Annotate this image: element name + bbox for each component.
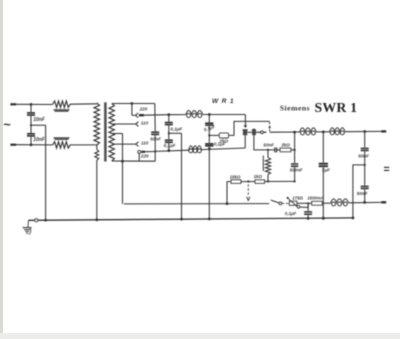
wire (16, 144, 53, 146)
rectifier cell 2 (252, 129, 256, 135)
label C13 value (285, 211, 297, 216)
wire (265, 180, 295, 182)
wire (202, 148, 246, 150)
contact circle (261, 131, 267, 134)
inductor L2 (53, 142, 70, 148)
label SWR 1 (315, 100, 358, 115)
wire (30, 103, 33, 112)
node (322, 131, 325, 134)
socket contact 220 top (135, 113, 138, 118)
wire (248, 131, 261, 133)
node (307, 217, 310, 220)
terminal mains L (10, 103, 16, 105)
wire (16, 103, 53, 105)
ground symbol (23, 220, 32, 234)
svg-text:2kΩ: 2kΩ (218, 139, 228, 144)
label C3 value (150, 136, 161, 141)
switch S1 pivot (279, 202, 282, 205)
wire ground rail (29, 218, 353, 220)
choke L6 (330, 128, 345, 135)
node mains input ~ (3, 118, 11, 132)
svg-text:50nF: 50nF (263, 142, 274, 147)
wire (70, 144, 97, 146)
resistor R2 2k (277, 148, 295, 152)
terminal mains N (10, 144, 16, 146)
wire (226, 182, 231, 205)
wire (348, 201, 381, 203)
svg-text:1500mA: 1500mA (307, 196, 324, 201)
capacitor C3 50nF (151, 132, 159, 134)
wire (96, 160, 98, 220)
wire selector bus lower (154, 135, 156, 161)
wire (297, 202, 312, 204)
svg-text:2kΩ: 2kΩ (280, 142, 290, 147)
label C11 value (358, 153, 369, 158)
transformer core (105, 102, 106, 161)
label C8 value (263, 142, 274, 147)
label Siemens (280, 104, 310, 113)
node (167, 113, 170, 116)
label C2 value (33, 137, 46, 143)
label = DC (384, 167, 389, 170)
capacitor C8 50nF (275, 147, 277, 152)
node (294, 149, 296, 151)
wire (254, 135, 274, 150)
label C7 value (214, 141, 226, 146)
node (168, 132, 170, 134)
wire (345, 130, 381, 132)
node (363, 130, 366, 133)
rectifier WR1 plate (243, 130, 248, 135)
wire output line bottom (124, 203, 269, 205)
capacitor C2 10nF (27, 134, 35, 136)
label 110 upper (141, 120, 149, 125)
svg-text:~: ~ (3, 118, 11, 132)
wire tap 220 top (112, 102, 155, 105)
wire (294, 167, 296, 181)
svg-text:W R 1: W R 1 (212, 98, 234, 105)
core of L2 (54, 138, 70, 139)
wire (31, 124, 46, 126)
terminal output + (381, 130, 386, 132)
node (44, 219, 47, 222)
wire secondary bottom (112, 160, 156, 162)
terminal output - (381, 201, 386, 203)
capacitor C6 0.1uF (205, 115, 213, 126)
switch S1 lever (271, 200, 279, 203)
label WR1 (212, 98, 234, 105)
label 220 top (139, 106, 148, 111)
svg-text:10nF: 10nF (33, 137, 46, 143)
wire (167, 143, 170, 152)
wire (316, 131, 329, 133)
wire (364, 151, 366, 185)
svg-text:220: 220 (139, 106, 148, 111)
label R2 value (280, 142, 290, 147)
wire tap 110 upper (112, 123, 135, 125)
transformer primary winding (94, 103, 100, 145)
wire plug drop (269, 122, 271, 131)
node (352, 217, 355, 220)
wire hf line bottom (155, 150, 188, 151)
node (208, 218, 211, 221)
label C6 value (203, 124, 216, 132)
node (294, 180, 296, 182)
connector circle (35, 219, 38, 222)
label R5 value (254, 174, 263, 179)
capacitor C5 0.1uF (165, 140, 173, 142)
capacitor C1 10nF (27, 113, 35, 115)
wire (203, 114, 246, 116)
label 110 lower (141, 141, 149, 146)
capacitor C10 7uF (319, 132, 328, 166)
plug bar at 220 (139, 114, 144, 116)
wire (363, 189, 366, 203)
svg-text:50nF: 50nF (358, 153, 369, 158)
resistor R1 2k (209, 133, 228, 138)
node (208, 134, 210, 136)
wire tap 110 lower (112, 143, 135, 145)
wire (208, 126, 210, 143)
label C1 value (33, 117, 46, 123)
label C5 value (164, 143, 176, 148)
svg-text:175Ω: 175Ω (292, 196, 303, 201)
capacitor C13 0.1uF (304, 203, 312, 218)
label R4 value (230, 174, 241, 179)
wire (282, 202, 289, 204)
svg-text:500nF: 500nF (290, 168, 303, 173)
resistor R5 1k (255, 180, 265, 184)
label C9 value (290, 168, 303, 173)
choke L5 (300, 128, 317, 135)
resistor R3 variable (263, 150, 270, 181)
socket contact 110 upper (136, 122, 139, 127)
resistor R4 15k (231, 180, 241, 184)
node (267, 149, 269, 183)
capacitor C11 50nF (361, 132, 369, 151)
fuse lever (286, 197, 297, 207)
core of L1 (54, 110, 70, 111)
choke L7 (331, 199, 349, 206)
wire (30, 116, 32, 133)
wire hf line top (144, 114, 186, 117)
svg-text:Siemens: Siemens (280, 104, 310, 113)
wire tap mid (112, 133, 122, 135)
label C10 value (322, 168, 330, 173)
wire (322, 167, 325, 220)
inductor L1 (53, 101, 70, 107)
svg-text:SWR 1: SWR 1 (315, 100, 358, 115)
rectifier WR1 arrow (244, 125, 248, 128)
label C12 value (357, 191, 368, 196)
transformer secondary winding (109, 103, 114, 161)
node (208, 113, 211, 116)
label 175 ohm (292, 196, 303, 201)
label 220 bottom (140, 154, 149, 159)
wire (145, 151, 155, 153)
wire (70, 103, 97, 105)
label F1 value (307, 196, 324, 201)
choke L4 (189, 146, 202, 153)
svg-text:110: 110 (141, 141, 149, 146)
node cap midpoint (30, 124, 32, 126)
wire ground link (353, 165, 365, 218)
socket contact 220 bottom (138, 150, 141, 161)
svg-text:220: 220 (140, 154, 149, 159)
wire (168, 126, 170, 140)
socket contact 110 lower (136, 142, 139, 147)
svg-text:0,1μF: 0,1μF (285, 211, 297, 216)
svg-text:50nF: 50nF (357, 191, 368, 196)
wire (322, 202, 330, 204)
node (293, 131, 296, 134)
wire (30, 137, 33, 146)
capacitor C4 0.1uF (165, 115, 173, 125)
capacitor C12 50nF (361, 186, 369, 188)
node (95, 218, 98, 221)
wire (208, 147, 211, 219)
wire (45, 125, 47, 220)
wiper plug arrow (247, 184, 250, 200)
svg-text:0,1μF: 0,1μF (164, 143, 176, 148)
fuse F1 1500mA (312, 201, 323, 205)
svg-text:10nF: 10nF (33, 117, 46, 123)
wire (241, 180, 255, 182)
capacitor C7 0.1uF (205, 144, 213, 146)
wire (244, 115, 246, 126)
resistor in primary return (95, 145, 99, 160)
svg-text:0,1μF: 0,1μF (170, 126, 182, 131)
capacitor C9 500nF (291, 132, 298, 166)
wire (169, 133, 182, 219)
svg-text:1kΩ: 1kΩ (254, 174, 263, 179)
label C4 value (170, 126, 182, 131)
node (364, 164, 366, 166)
label R1 value (218, 139, 228, 144)
fuse lever contact (297, 203, 308, 208)
wire selector bus upper (154, 104, 156, 132)
choke L3 (186, 110, 203, 117)
node (180, 218, 183, 221)
svg-text:110: 110 (141, 120, 149, 125)
wire (244, 135, 246, 148)
fuse resistor 175 ohm box (289, 201, 297, 205)
svg-text:15kΩ: 15kΩ (230, 174, 241, 179)
wire (229, 121, 270, 135)
wire (132, 104, 135, 116)
plug bar at 220 bottom (141, 151, 145, 153)
wire (121, 134, 124, 204)
wire output line top (270, 131, 300, 133)
